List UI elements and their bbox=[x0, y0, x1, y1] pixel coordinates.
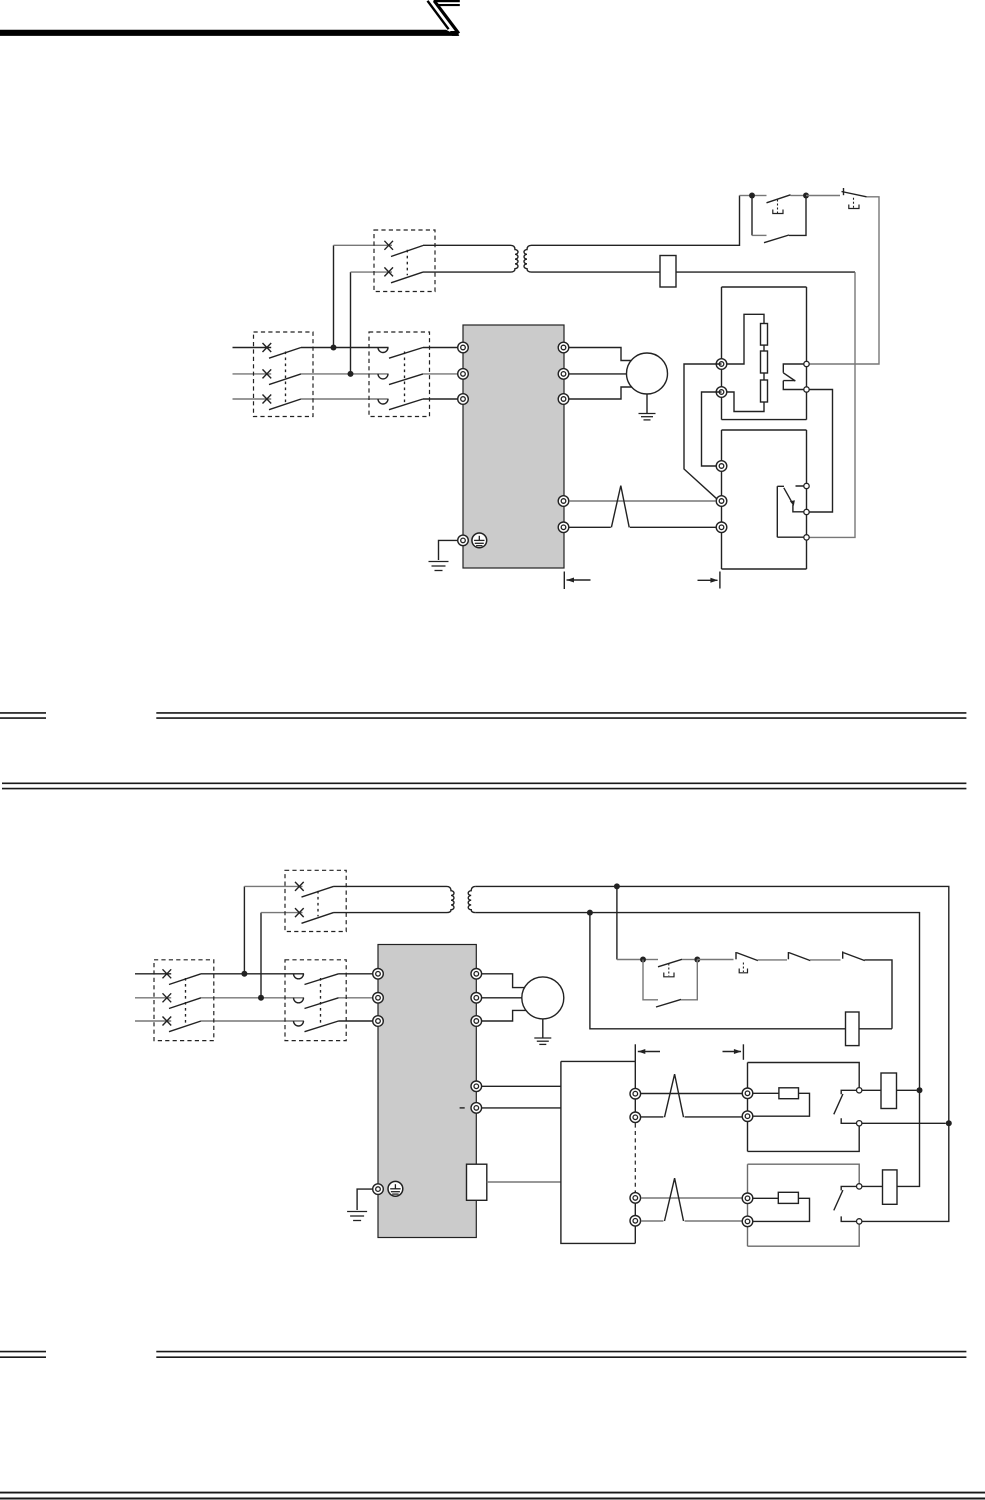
motor M1 wires U V W bbox=[564, 348, 633, 400]
amplifier terminal V bbox=[558, 369, 569, 380]
amplifier terminal P out bbox=[558, 496, 569, 507]
ES operator symbol bbox=[664, 973, 674, 977]
motor M2 ground bbox=[534, 1038, 551, 1044]
MC coil 2 bbox=[846, 1012, 860, 1046]
wire tap to CP pole 1 bbox=[334, 244, 393, 246]
unit1 terminal P bbox=[742, 1088, 753, 1099]
switch 3 blade bbox=[789, 953, 810, 961]
node L1 junction dot bbox=[331, 345, 337, 351]
transformer T2 secondary winding bbox=[468, 886, 476, 912]
wire L2 phase input bbox=[233, 373, 272, 375]
wire switch3 to switch4 bbox=[810, 959, 841, 961]
thermal contact blade bbox=[783, 373, 795, 381]
wire L3 phase input bbox=[233, 398, 272, 400]
CP pole 2 blade bbox=[302, 913, 334, 924]
amplifier terminal U bbox=[558, 342, 569, 353]
wire P to terminal 2 diagonal bbox=[684, 364, 722, 500]
wire CP to transformer primary bottom bbox=[423, 271, 511, 273]
motor M1 ground bbox=[639, 414, 656, 420]
wire L2 to MC bbox=[301, 373, 389, 375]
wire C to terminal 1 bbox=[702, 392, 722, 466]
ES actuator dashed link bbox=[668, 964, 670, 977]
wire L1 to MC bbox=[201, 973, 304, 975]
relay contact blade arrowhead bbox=[790, 500, 795, 505]
wire coil1 to secondary2 bbox=[897, 1089, 917, 1091]
wire circleA to relay coil 1 bbox=[862, 1089, 881, 1091]
CP pole 1 blade bbox=[391, 246, 423, 257]
CP pole 1 contact X bbox=[295, 882, 304, 891]
switch 2 operator symbol bbox=[739, 969, 747, 973]
wire P to resistor chain bbox=[727, 314, 764, 364]
transformer T2 primary winding bbox=[447, 886, 455, 912]
wire L1 tap up to circuit protector bbox=[333, 245, 335, 347]
CP pole 1 blade bbox=[302, 886, 334, 897]
switch 4 tick bbox=[842, 951, 844, 958]
MC pole 3 blade bbox=[389, 399, 423, 410]
wire ES dot2 to switch 2 bbox=[697, 959, 733, 961]
MCCB pole 1 contact X bbox=[263, 343, 272, 352]
node lower axis feed dot bbox=[946, 1120, 952, 1126]
wire R3 to C bbox=[727, 392, 764, 412]
MCCB pole 3 contact X bbox=[263, 395, 272, 404]
MC linkage dotted bbox=[404, 352, 406, 404]
wire L3 phase input bbox=[135, 1020, 171, 1022]
servo amplifier block 2 bbox=[378, 945, 476, 1238]
MCCB pole 3 blade bbox=[269, 399, 301, 410]
dimension tick right bbox=[719, 572, 721, 589]
switch 3 tick bbox=[787, 952, 789, 959]
PE ground bbox=[429, 562, 449, 571]
emergency stop contact 1 lead bbox=[755, 195, 767, 197]
lower unit terminal 1 bbox=[716, 461, 727, 472]
amplifier2 terminal L3 bbox=[373, 1016, 384, 1027]
wire L2 to terminal bbox=[339, 997, 373, 999]
MC pole 2 blade bbox=[389, 374, 423, 385]
node contact circle C bbox=[804, 535, 809, 540]
motor M1 bbox=[627, 353, 668, 394]
section rule top bbox=[0, 713, 966, 718]
motor M2 bbox=[522, 977, 564, 1019]
section rule full bbox=[2, 783, 966, 788]
ES parallel contact blade bbox=[656, 999, 681, 1007]
relay coil 2 bbox=[883, 1170, 898, 1204]
node L2 junction dot bbox=[258, 995, 264, 1001]
wire circleA2 to relay coil 2 bbox=[862, 1185, 883, 1187]
lower unit terminal 2 bbox=[716, 496, 727, 507]
CP pole 1 contact X bbox=[384, 241, 393, 250]
node L1 junction dot bbox=[241, 971, 247, 977]
MCCB pole 2 contact X bbox=[163, 993, 172, 1002]
wire L1 to MC bbox=[301, 347, 389, 349]
MC dashed box bbox=[285, 960, 346, 1041]
dimension arrow right bbox=[698, 578, 718, 583]
unit1 terminal C bbox=[742, 1111, 753, 1122]
CP pole 2 contact X bbox=[295, 908, 304, 917]
node unit1 circle B bbox=[857, 1121, 862, 1126]
wire P to resistor 2 bbox=[753, 1197, 778, 1199]
MC pole 2 blade bbox=[305, 998, 339, 1009]
thermal contact upper leads bbox=[783, 364, 804, 390]
junction terminal C bbox=[630, 1193, 641, 1204]
wire amplifier P to junction box bbox=[482, 1085, 561, 1087]
PE earth mark 2 bbox=[388, 1181, 403, 1196]
node secondary1 tap dot bbox=[614, 883, 620, 889]
dimension arrow left 2 bbox=[638, 1049, 660, 1054]
amplifier2 terminal L2 bbox=[373, 993, 384, 1004]
CP linkage dotted bbox=[317, 891, 319, 917]
terminal minus mark bbox=[460, 1107, 465, 1109]
amplifier terminal L2 bbox=[458, 369, 469, 380]
wire L1 phase input bbox=[135, 973, 171, 975]
amplifier2 terminal P bbox=[471, 1081, 482, 1092]
resistor R2 bbox=[761, 351, 768, 373]
MC pole 1 arc bbox=[294, 974, 304, 979]
amplifier terminal L1 bbox=[458, 342, 469, 353]
amplifier2 PE terminal bbox=[373, 1184, 384, 1195]
dimension arrow left bbox=[567, 578, 591, 583]
MC dashed box bbox=[369, 332, 430, 417]
ES parallel contact branch wire bbox=[643, 960, 658, 1000]
wire coil to unit contact bbox=[676, 271, 855, 273]
wire ES dot2 to switch 2 bbox=[806, 195, 840, 197]
MCCB pole 1 contact X bbox=[163, 969, 172, 978]
relay coil 1 bbox=[881, 1073, 897, 1109]
cable break mark axis1 bbox=[665, 1074, 684, 1117]
MC pole 2 arc bbox=[294, 998, 304, 1003]
relay contact leads bbox=[777, 486, 804, 537]
node ES dot 1 bbox=[749, 193, 755, 199]
MC pole 1 blade bbox=[389, 348, 423, 359]
ES parallel branch return wire bbox=[789, 196, 806, 236]
transformer T1 primary winding bbox=[511, 245, 519, 272]
wire amplifier P to unit gray bbox=[569, 500, 716, 502]
unit1 contact blade bbox=[834, 1094, 843, 1114]
wire L1 phase input bbox=[233, 347, 272, 349]
MC linkage dotted bbox=[320, 978, 322, 1026]
wire R1-R2 bbox=[763, 345, 765, 351]
wire L3 to MC bbox=[301, 398, 389, 400]
wire L1 to terminal bbox=[339, 973, 373, 975]
resistor unit1 bbox=[779, 1088, 799, 1099]
wire junction to unit1 C bbox=[641, 1116, 742, 1118]
unit2 terminal P bbox=[742, 1193, 753, 1204]
amplifier PE terminal bbox=[458, 535, 469, 546]
ES actuator dashed link bbox=[777, 200, 779, 214]
MC coil wire from secondary bbox=[532, 271, 661, 273]
unit2 contact leads bbox=[841, 1186, 856, 1221]
wire amplifier C to unit bbox=[569, 526, 716, 528]
circuit protector dashed box bbox=[285, 870, 346, 931]
junction terminal D bbox=[630, 1216, 641, 1227]
switch 2 blade bbox=[842, 192, 867, 197]
amplifier terminal W bbox=[558, 394, 569, 405]
switch 4 blade bbox=[843, 953, 864, 961]
amplifier2 terminal V bbox=[471, 993, 482, 1004]
unit2 terminal C bbox=[742, 1216, 753, 1227]
wire L3 to terminal bbox=[339, 1020, 373, 1022]
wire resistor2 loop to C bbox=[753, 1198, 809, 1221]
switch 2 tick bbox=[843, 188, 845, 195]
wire secondary1 down to lower axis bbox=[862, 1123, 949, 1221]
dimension tick left bbox=[563, 572, 565, 590]
node secondary2 tap dot bbox=[587, 910, 593, 916]
node contact circle A bbox=[804, 483, 809, 488]
wire tap to CP pole 2 bbox=[351, 271, 393, 273]
MCCB pole 3 contact X bbox=[163, 1017, 172, 1026]
wire secondary top to emergency stop chain bbox=[532, 196, 740, 246]
resistor R1 bbox=[761, 324, 768, 346]
CP pole 2 blade bbox=[391, 272, 423, 283]
wire circleB to secondary1 bbox=[862, 1122, 946, 1124]
wire L1 tap up to circuit protector bbox=[243, 886, 245, 973]
dimension arrow right 2 bbox=[723, 1049, 742, 1054]
connector CN box bbox=[467, 1164, 487, 1200]
wire L2 tap up to circuit protector bbox=[260, 913, 262, 998]
CP linkage dotted bbox=[406, 250, 408, 275]
relay contact blade bbox=[784, 488, 793, 504]
MCCB pole 2 contact X bbox=[263, 369, 272, 378]
node contact circle 1 bbox=[804, 361, 809, 366]
unit terminal C bbox=[716, 387, 727, 398]
node L2 junction dot bbox=[348, 371, 354, 377]
node ES dot 2 bbox=[803, 193, 809, 199]
junction terminal box outline bbox=[561, 1061, 635, 1243]
wire L2 tap up to circuit protector bbox=[350, 272, 352, 374]
brake resistor unit outline bbox=[722, 287, 807, 420]
MC pole 3 arc bbox=[294, 1021, 304, 1026]
wire CP to transformer primary bottom bbox=[334, 912, 447, 914]
switch 2 operator symbol bbox=[849, 205, 859, 209]
MCCB pole 1 blade bbox=[269, 348, 301, 359]
amplifier2 terminal C bbox=[471, 1103, 482, 1114]
ES operator symbol bbox=[773, 210, 783, 214]
wire CP to transformer primary top bbox=[334, 885, 447, 887]
wire CN cable gray bbox=[487, 1181, 561, 1183]
junction box dashed edge bbox=[634, 1124, 636, 1191]
PE ground 2 bbox=[347, 1212, 367, 1221]
wire junction to unit2 C gray bbox=[641, 1220, 742, 1222]
node ES dot 1 bbox=[640, 957, 646, 963]
node unit2 circle A bbox=[857, 1184, 862, 1189]
wire P to resistor bbox=[753, 1092, 779, 1094]
MCCB pole 2 blade bbox=[269, 374, 301, 385]
ES parallel contact blade bbox=[764, 235, 789, 243]
wire junction to unit2 P gray bbox=[641, 1197, 742, 1199]
wire to ES dot 2 bbox=[682, 959, 694, 961]
MCCB linkage dotted bbox=[285, 352, 287, 404]
resistor R3 bbox=[761, 380, 768, 402]
amplifier2 terminal L1 bbox=[373, 969, 384, 980]
MC pole 1 blade bbox=[305, 974, 339, 985]
MC coil bbox=[660, 256, 676, 288]
junction terminal B bbox=[630, 1112, 641, 1123]
regen unit 1 box bbox=[748, 1063, 860, 1152]
switch 2 actuator dashed link bbox=[742, 963, 744, 973]
PE earth mark bbox=[472, 533, 487, 548]
header bar bbox=[0, 0, 460, 36]
wire coil return gray bbox=[809, 272, 855, 537]
MCCB dashed box bbox=[154, 960, 214, 1041]
amplifier2 terminal U bbox=[471, 969, 482, 980]
MCCB pole 3 blade bbox=[169, 1021, 201, 1032]
MC pole 3 arc bbox=[378, 399, 388, 404]
MCCB pole 1 blade bbox=[169, 974, 201, 985]
wire L3 to MC bbox=[201, 1020, 304, 1022]
node unit1 circle A bbox=[857, 1088, 862, 1093]
node unit2 circle B bbox=[857, 1219, 862, 1224]
cable break mark axis2 bbox=[665, 1178, 684, 1221]
wire coil loop bottom bbox=[590, 913, 892, 1029]
wire L2 to terminal bbox=[423, 373, 457, 375]
MC pole 1 arc bbox=[378, 348, 388, 353]
wire L3 to terminal bbox=[423, 398, 457, 400]
wire secondary line 1 bbox=[476, 886, 949, 1123]
wire tap to CP pole 1 bbox=[244, 885, 302, 887]
wire secondary line 2 bbox=[476, 913, 920, 1187]
motor M2 ground wire bbox=[542, 1019, 544, 1038]
wire circle2 to lower contact bbox=[809, 390, 832, 513]
MC pole 2 arc bbox=[378, 374, 388, 379]
wire switch2 to brake unit contact bbox=[809, 197, 879, 364]
cable break mark bbox=[611, 486, 629, 528]
wire to ES dot 2 bbox=[791, 195, 804, 197]
unit terminal P bbox=[716, 359, 727, 370]
unit2 contact blade bbox=[834, 1190, 843, 1210]
junction terminal A bbox=[630, 1088, 641, 1099]
node ES dot 2 bbox=[694, 957, 700, 963]
amplifier terminal C out bbox=[558, 522, 569, 533]
node contact circle B bbox=[804, 509, 809, 514]
section rule bottom bbox=[0, 1352, 966, 1358]
dimension tick left 2 bbox=[634, 1044, 636, 1061]
regen unit 2 box gray bbox=[748, 1164, 860, 1246]
unit1 contact leads bbox=[841, 1090, 856, 1123]
MC pole 3 blade bbox=[305, 1021, 339, 1032]
motor M2 wires U V W bbox=[482, 974, 527, 1021]
emergency stop contact blade bbox=[658, 959, 682, 967]
amplifier terminal L3 bbox=[458, 394, 469, 405]
amplifier2 terminal W bbox=[471, 1016, 482, 1027]
PE ground wire bbox=[439, 540, 458, 560]
switch 2 blade bbox=[737, 953, 758, 961]
motor M1 ground wire bbox=[646, 394, 648, 413]
wire amplifier C to junction box bbox=[482, 1107, 561, 1109]
lower unit terminal 3 bbox=[716, 522, 727, 533]
page footer border bbox=[0, 1493, 985, 1499]
wire L1 to terminal bbox=[423, 347, 457, 349]
wire resistor loop to C bbox=[753, 1093, 809, 1116]
wire switch4 to coil loop bbox=[864, 960, 892, 1029]
switch 2 tick bbox=[735, 952, 737, 959]
node contact circle 2 bbox=[804, 387, 809, 392]
wire L2 to MC bbox=[201, 997, 304, 999]
servo amplifier block 1 bbox=[463, 325, 564, 568]
node coil tap dot bbox=[917, 1087, 923, 1093]
resistor unit2 bbox=[778, 1192, 798, 1203]
MCCB dashed box bbox=[254, 332, 314, 417]
ES parallel contact branch wire bbox=[751, 196, 753, 236]
emergency stop contact lead bbox=[646, 959, 658, 961]
wire CP to transformer primary top bbox=[423, 244, 511, 246]
wire junction to unit1 P bbox=[641, 1093, 742, 1095]
wire L2 phase input bbox=[135, 997, 171, 999]
wire R2-R3 bbox=[763, 373, 765, 380]
resistor unit lower box outline bbox=[722, 430, 807, 569]
MCCB linkage dotted bbox=[185, 978, 187, 1026]
wire switch2 to switch3 bbox=[758, 959, 787, 961]
emergency stop contact 1 blade bbox=[767, 195, 791, 203]
ES parallel branch return wire bbox=[681, 960, 697, 1000]
circuit protector dashed box bbox=[374, 230, 435, 292]
wire tap to CP pole 2 bbox=[261, 912, 303, 914]
wire ES feed down bbox=[616, 886, 618, 959]
switch 2 actuator dashed link bbox=[853, 198, 855, 208]
dimension tick right 2 bbox=[742, 1044, 744, 1060]
transformer T1 secondary winding bbox=[524, 245, 532, 272]
PE ground wire 2 bbox=[357, 1189, 372, 1210]
MCCB pole 2 blade bbox=[169, 998, 201, 1009]
CP pole 2 contact X bbox=[384, 267, 393, 276]
